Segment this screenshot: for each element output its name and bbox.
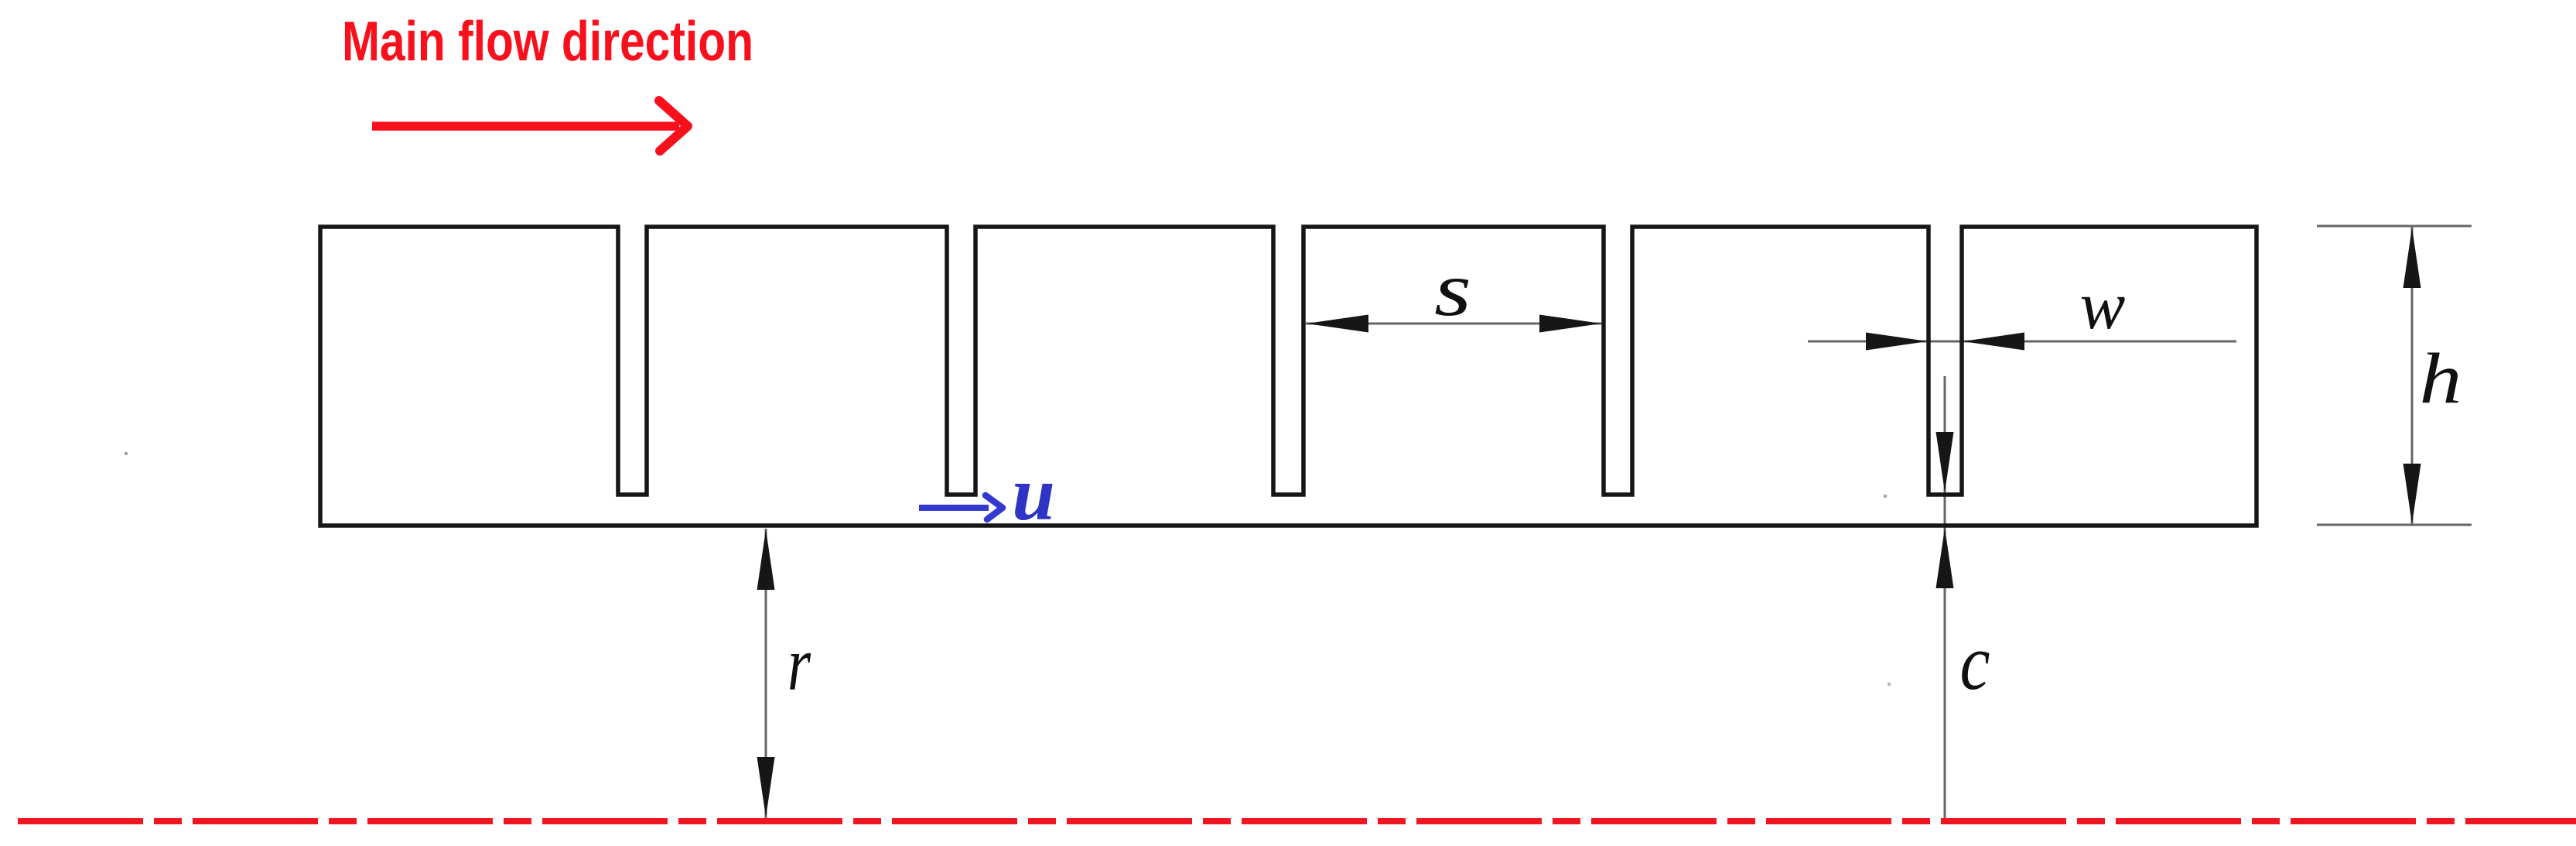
- svg-text:Main flow direction: Main flow direction: [342, 11, 753, 73]
- arrowheads for dimension s (outward): [1307, 315, 1601, 333]
- dimension c line: [1944, 376, 1946, 818]
- svg-text:w: w: [2080, 269, 2126, 344]
- dimension s line: [1306, 323, 1602, 325]
- dimension h extension line top: [2317, 225, 2472, 228]
- arrowheads for dimension w (inward pointing): [1866, 333, 2024, 351]
- arrowheads for dimension r: [757, 529, 775, 817]
- svg-text:u: u: [1012, 450, 1055, 536]
- dimension h extension line bottom: [2317, 524, 2472, 526]
- seal block outline with five slots: [320, 227, 2257, 526]
- arrowheads for dimension h: [2403, 228, 2421, 524]
- svg-text:c: c: [1960, 618, 1990, 707]
- blue velocity arrow u: [919, 495, 1003, 519]
- faint scan speck near c label: [1888, 683, 1891, 686]
- faint scan speck near slot 5 bottom: [1884, 495, 1888, 498]
- red main-flow arrow: [372, 101, 688, 151]
- dimension w line: [1808, 341, 2236, 343]
- svg-text:r: r: [787, 621, 811, 707]
- faint scan speck left: [125, 452, 128, 455]
- svg-text:h: h: [2420, 339, 2462, 419]
- arrowheads for dimension c: [1936, 432, 1954, 588]
- red dash-dot centerline: [18, 818, 2576, 824]
- svg-text:s: s: [1434, 246, 1471, 332]
- dimension h line: [2411, 227, 2414, 524]
- dimension r line: [765, 529, 767, 818]
